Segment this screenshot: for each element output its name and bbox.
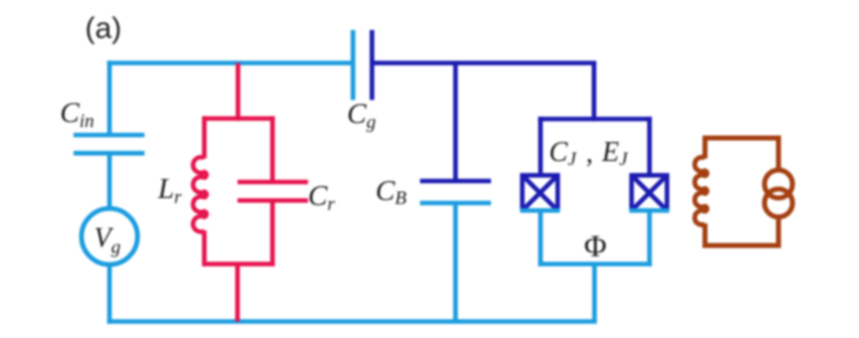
brown pickup loop: top bar bbox=[703, 136, 782, 141]
brown pickup loop: left rail lower bbox=[703, 224, 708, 249]
capacitor CB bottom plate (cyan) bbox=[420, 201, 491, 206]
voltage source Vg bbox=[82, 209, 138, 265]
current source: lower circle bbox=[765, 189, 793, 217]
squid loop: cyan bottom bar bbox=[538, 262, 652, 267]
svg-text:Cin: Cin bbox=[60, 97, 94, 132]
inductor Lr coil bbox=[193, 157, 207, 232]
wire: navy top horizontal bbox=[372, 61, 596, 66]
josephson junction JJ1 bottom edge (cyan) bbox=[520, 208, 560, 213]
brown pickup loop: left rail upper bbox=[703, 136, 708, 159]
svg-text:EJ: EJ bbox=[601, 137, 629, 170]
squid loop: navy right vertical bbox=[647, 117, 652, 175]
capacitor Cg right plate (navy) bbox=[370, 30, 375, 100]
capacitor Cr bbox=[238, 182, 309, 201]
squid loop: cyan left vertical below JJ1 bbox=[538, 211, 543, 267]
resonator loop: top bar bbox=[202, 116, 275, 121]
capacitor CB top plate (navy) bbox=[420, 179, 491, 184]
current source: upper circle bbox=[765, 170, 793, 198]
wire: navy vertical to squid bbox=[592, 63, 597, 121]
brown pickup loop: bottom bar bbox=[703, 243, 782, 248]
josephson junction JJ1 (left): navy box top/left/right + X bbox=[522, 175, 557, 210]
svg-text:Cr: Cr bbox=[308, 180, 335, 215]
svg-text:Cg: Cg bbox=[347, 98, 376, 133]
capacitor Cg left plate (cyan) bbox=[351, 30, 356, 100]
wire: top horizontal cyan bbox=[107, 61, 353, 66]
svg-text:(a): (a) bbox=[85, 12, 122, 45]
wire: Vg to bottom bbox=[107, 263, 112, 324]
brown pickup loop: right rail upper bbox=[776, 136, 781, 172]
resonator loop: bottom bar bbox=[202, 262, 275, 267]
josephson junction JJ2 (right): navy box top/left/right + X bbox=[632, 175, 667, 210]
resonator loop: right rail lower bbox=[270, 201, 275, 267]
svg-text:CB: CB bbox=[376, 175, 407, 209]
wire: navy branch down to CB bbox=[453, 63, 458, 181]
wire: cyan below CB to bottom bbox=[453, 203, 458, 322]
svg-text:,: , bbox=[586, 138, 593, 169]
resonator loop: right rail upper bbox=[270, 116, 275, 182]
squid loop: cyan right vertical below JJ2 bbox=[647, 211, 652, 267]
capacitor Cin bbox=[74, 135, 145, 153]
resonator: red stub bottom bbox=[235, 264, 240, 322]
resonator loop: left rail lower bbox=[202, 231, 207, 267]
svg-text:Lr: Lr bbox=[157, 173, 182, 208]
resonator: red stub top bbox=[236, 63, 241, 121]
svg-text:Vg: Vg bbox=[94, 223, 121, 258]
resonator loop: left rail upper bbox=[202, 116, 207, 158]
squid loop: navy left vertical bbox=[538, 117, 543, 175]
inductor coil (brown) bbox=[695, 157, 707, 225]
wire: cyan drop from squid to bottom bbox=[592, 264, 597, 322]
svg-text:Φ: Φ bbox=[584, 228, 607, 263]
squid loop: navy top bar bbox=[538, 117, 652, 122]
josephson junction JJ2 bottom edge (cyan) bbox=[629, 208, 669, 213]
wire: left vertical down to Cin bbox=[107, 61, 112, 136]
wire: Cin to Vg bbox=[107, 153, 112, 210]
svg-text:CJ: CJ bbox=[549, 137, 578, 170]
wire: bottom horizontal cyan bbox=[107, 319, 597, 324]
brown pickup loop: right rail lower bbox=[776, 216, 781, 248]
